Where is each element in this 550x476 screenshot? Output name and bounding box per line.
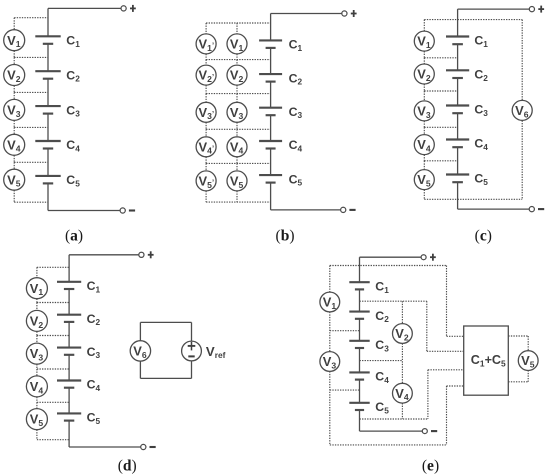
wire V6-Vref loop top (d): [140, 321, 191, 323]
sense wire lead above V5 (c): [423, 161, 425, 170]
svg-text:C4: C4: [87, 378, 101, 393]
sense wire lead below V3p (b): [205, 122, 207, 129]
voltmeter V4prime (b): [196, 137, 216, 157]
sense wire lead above V3 (c): [423, 91, 425, 101]
sense wire lead below V5p (b): [205, 191, 207, 202]
wire (d) negative lead: [69, 446, 141, 448]
cell C3 (c): [446, 106, 469, 114]
sense wire left below V3 (e): [329, 371, 331, 445]
voltmeter V4 (d): [26, 376, 47, 397]
cell C2 (d): [57, 315, 81, 322]
svg-text:C1: C1: [289, 38, 303, 53]
sense wire lead below V4 (b): [236, 157, 238, 164]
svg-text:C4: C4: [66, 138, 80, 153]
sense wire V2-V4 (e): [401, 343, 403, 383]
wire (d) positive lead: [69, 254, 139, 256]
sense wire lead above V2 (d): [36, 303, 38, 311]
sense wire lead below V2 (b): [236, 85, 238, 94]
cell C1 (c): [446, 37, 469, 45]
sense wire V4 lower lead (e): [401, 403, 403, 419]
wire (b) segment C3-C4: [270, 115, 272, 141]
wire (c) positive lead: [458, 8, 530, 10]
sense wire node 2 (d): [37, 335, 69, 337]
wire (b) positive lead: [271, 13, 342, 15]
cell C5 (c): [446, 175, 469, 183]
svg-text:C2: C2: [87, 312, 101, 327]
voltmeter V1 (c): [414, 31, 434, 51]
sense wire outer right rise to block (e): [446, 386, 448, 445]
voltmeter V2 (d): [26, 310, 47, 331]
cell C2 (c): [446, 70, 469, 78]
wire (a) top node segment: [47, 8, 49, 36]
wire (b) segment C1-C2: [270, 48, 272, 74]
wire (c) segment C3-C4: [457, 113, 459, 139]
svg-text:C4: C4: [474, 137, 488, 152]
sense wire lead above V2 (c): [423, 58, 425, 64]
wire V6-Vref loop right lower (d): [191, 361, 193, 379]
sense wire lead above V4 (a): [13, 127, 15, 134]
terminal + (c): [529, 6, 544, 13]
voltmeter V3 (e): [320, 352, 340, 372]
svg-text:(b): (b): [276, 228, 295, 245]
svg-text:(c): (c): [475, 228, 492, 245]
sense wire lead above V1 (d): [36, 267, 38, 277]
voltmeter V3 (c): [414, 101, 434, 121]
sense wire node 3 (b): [206, 128, 271, 130]
wire (a) segment C4-C5: [47, 149, 49, 176]
voltmeter V5 (e): [518, 351, 538, 371]
sense wire lead below V4 (a): [13, 155, 15, 162]
terminal - (b): [341, 207, 356, 212]
wire (d) bottom segment: [68, 421, 70, 447]
wire (e) top node segment: [359, 257, 361, 282]
svg-text:C1+C5: C1+C5: [471, 353, 506, 368]
sense wire lead above V4 (c): [423, 127, 425, 134]
wire (d) segment C4-C5: [68, 388, 70, 414]
wire (c) bottom segment: [457, 182, 459, 209]
voltmeter V4 (c): [414, 135, 434, 155]
voltmeter V4 (e): [393, 383, 413, 403]
svg-text:C2: C2: [66, 68, 80, 83]
wire V6-Vref loop left (d): [139, 322, 141, 341]
sense wire lead above V2 (a): [13, 57, 15, 64]
sense wire node 4 (b): [206, 162, 271, 164]
wire (a) segment C3-C4: [47, 114, 49, 141]
voltmeter V3 (b): [227, 102, 247, 122]
cell C4 (b): [259, 141, 282, 149]
svg-text:C4: C4: [289, 138, 303, 153]
cell C4 (a): [35, 141, 60, 149]
sense wire lead above V4 (b): [236, 129, 238, 137]
cell C2 (e): [349, 312, 369, 319]
sense wire top row drop to block (e): [446, 266, 448, 337]
sense wire left V1-V3 (e): [329, 312, 331, 352]
terminal + (b): [342, 10, 357, 17]
sense wire lead below V5 (c): [423, 190, 425, 200]
svg-text:C5: C5: [87, 411, 101, 426]
sense wire lead below V1 (a): [13, 51, 15, 58]
sense wire outer bottom row (e): [330, 444, 447, 446]
sense wire lead below V1p (b): [205, 54, 207, 60]
block C1+C5 estimator (e): [464, 326, 509, 395]
sense wire lead above V4 (d): [36, 369, 38, 376]
sense wire lead above V4p (b): [205, 129, 207, 137]
svg-text:C3: C3: [375, 338, 389, 353]
wire (c) top node segment: [457, 9, 459, 36]
cell C2 (a): [35, 71, 60, 79]
voltmeter V1prime (b): [196, 34, 216, 54]
sense wire lead below V3 (d): [36, 364, 38, 369]
diagram (c): battery stack with cell voltmeters plus total-voltage voltmeter V6: [0, 0, 1, 1]
sense wire lead below V1 (d): [36, 299, 38, 303]
sense wire lead above V1p (b): [205, 23, 207, 34]
sense wire node 3 (a): [14, 126, 48, 128]
sense wire node 1 (d): [37, 302, 69, 304]
wire (d) segment C1-C2: [68, 289, 70, 315]
voltmeter V3 (d): [26, 343, 47, 364]
sense wire lead below V4p (b): [205, 157, 207, 164]
terminal - (d): [141, 444, 156, 449]
wire V6-Vref loop right (d): [191, 322, 193, 341]
wire (e) segment C4-C5: [359, 380, 361, 403]
sense wire lead below V3 (c): [423, 121, 425, 127]
wire (b) negative lead: [271, 209, 341, 211]
sense wire lead below V2p (b): [205, 85, 207, 94]
voltmeter V4 (a): [4, 134, 25, 155]
wire (a) segment C1-C2: [47, 44, 49, 71]
sense wire lead above V1 (a): [13, 18, 15, 30]
sense wire node 4 (d): [37, 401, 69, 403]
wire V6-Vref loop left lower (d): [139, 361, 141, 379]
diagram (b): battery stack with redundant voltmeters V1p-V5p and V1-V5: [0, 0, 1, 1]
svg-text:C5: C5: [474, 172, 488, 187]
wire (c) segment C4-C5: [457, 147, 459, 174]
wire (e) segment C2-C3: [359, 319, 361, 341]
wire (a) bottom segment: [47, 183, 49, 210]
svg-text:C3: C3: [87, 345, 101, 360]
sense wire node 1 (a): [14, 56, 48, 58]
sense wire node 3 (c): [424, 126, 457, 128]
sense wire node 1 (b): [206, 59, 271, 61]
wire (d) segment C3-C4: [68, 355, 70, 381]
svg-text:C2: C2: [289, 71, 303, 86]
wire (a) negative lead: [48, 210, 120, 212]
sense wire node 5 (d): [37, 439, 69, 441]
svg-text:C1: C1: [87, 279, 101, 294]
svg-text:C5: C5: [66, 173, 80, 188]
cell C5 (d): [57, 413, 81, 420]
wire (e) segment C3-C4: [359, 348, 361, 372]
sense wire node 1 (c): [424, 57, 457, 59]
sense wire lead above V5p (b): [205, 163, 207, 171]
sense wire bottom span to V6 (c): [458, 198, 523, 200]
svg-text:C5: C5: [289, 172, 303, 187]
sense wire lead above V1 (c): [423, 20, 425, 32]
sense wire lead above V3 (a): [13, 92, 15, 99]
sense wire lead below V3 (b): [236, 122, 238, 129]
terminal + (e): [421, 254, 436, 261]
cell C4 (c): [446, 140, 469, 148]
sense wire node 5 (c): [424, 198, 457, 200]
sense wire left lead above V1 (e): [329, 266, 331, 293]
wire (e) segment C1-C2: [359, 289, 361, 311]
terminal + (d): [139, 251, 154, 258]
wire (c) segment C2-C3: [457, 78, 459, 106]
terminal - (c): [529, 207, 544, 212]
cell C5 (b): [259, 175, 282, 183]
sense wire V2 upper lead (e): [401, 301, 403, 323]
sense wire block to V5 top (e): [508, 335, 528, 337]
cell C2 (b): [259, 74, 282, 82]
sense wire lead above V5 (b): [236, 163, 238, 171]
voltmeter V6 (d): [130, 341, 150, 361]
sense wire lead below V2 (d): [36, 331, 38, 335]
svg-text:C4: C4: [375, 370, 389, 385]
sense wire node 3 (d): [37, 368, 69, 370]
sense tap node C4-C5 (e): [330, 389, 360, 391]
diagram (d): battery stack with voltmeters and reference source loop: [0, 0, 1, 1]
sense wire node 2 (a): [14, 91, 48, 93]
svg-text:C3: C3: [474, 103, 488, 118]
sense wire lead below V4 (c): [423, 155, 425, 161]
voltmeter V5prime (b): [196, 171, 216, 191]
voltmeter V5 (a): [4, 169, 25, 190]
sense wire node 0 (c): [424, 19, 457, 21]
sense wire node 0 (b): [206, 22, 271, 24]
cell C1 (b): [259, 40, 282, 48]
wire (e) positive lead: [360, 256, 422, 258]
wire (b) segment C4-C5: [270, 149, 272, 176]
wire (d) segment C2-C3: [68, 322, 70, 348]
voltmeter V1 (e): [320, 292, 340, 312]
svg-text:(a): (a): [65, 228, 83, 245]
terminal - (a): [120, 208, 135, 213]
sense wire lead above V1 (b): [236, 23, 238, 34]
wire (a) segment C2-C3: [47, 79, 49, 106]
wire (c) segment C1-C2: [457, 44, 459, 70]
sense wire lead below V5 (a): [13, 190, 15, 202]
svg-text:C1: C1: [375, 280, 389, 295]
svg-text:C2: C2: [375, 309, 389, 324]
voltmeter V3 (a): [4, 99, 25, 120]
voltmeter V1 (b): [227, 34, 247, 54]
svg-text:(e): (e): [422, 457, 439, 474]
cell C1 (a): [35, 36, 60, 44]
svg-text:C2: C2: [474, 68, 488, 83]
sense wire lead below V2 (a): [13, 86, 15, 93]
sense wire node 5 (b): [206, 201, 271, 203]
wire V6-Vref loop bottom (d): [140, 377, 191, 379]
sense wire lead above V2 (b): [236, 60, 238, 66]
voltmeter V6 (c): [512, 100, 532, 120]
sense wire lead above V3 (d): [36, 336, 38, 344]
sense wire lead below V1 (b): [236, 54, 238, 60]
sense wire bottom node row (e): [360, 418, 428, 420]
voltmeter V1 (a): [4, 30, 25, 51]
voltmeter V5 (d): [26, 409, 47, 430]
terminal - (e): [422, 429, 437, 434]
cell C3 (d): [57, 348, 81, 355]
wire (c) negative lead: [458, 208, 530, 210]
voltmeter V2 (b): [227, 65, 247, 85]
sense wire block to V5 bottom (e): [508, 381, 528, 383]
wire (b) top node segment: [270, 14, 272, 41]
voltmeter V2 (e): [393, 324, 413, 344]
voltmeter V2 (c): [414, 64, 434, 84]
voltmeter V3prime (b): [196, 102, 216, 122]
sense wire lead below V1 (c): [423, 51, 425, 58]
sense wire lead above V5 (d): [36, 402, 38, 408]
sense wire top span to V6 (c): [458, 19, 523, 21]
wire (b) bottom segment: [270, 183, 272, 210]
sense wire node 0 (a): [14, 17, 48, 19]
sense wire bottom node rise to block (e): [427, 370, 429, 419]
sense wire node 2 (c): [424, 90, 457, 92]
wire (b) segment C2-C3: [270, 82, 272, 108]
cell C1 (e): [349, 282, 369, 289]
sense wire node 0 (d): [37, 266, 69, 268]
voltmeter V4 (b): [227, 137, 247, 157]
cell C5 (e): [349, 403, 369, 410]
sense wire lead below V5 (d): [36, 430, 38, 440]
sense wire lead above V2p (b): [205, 60, 207, 66]
svg-text:C3: C3: [289, 105, 303, 120]
svg-text:C5: C5: [375, 400, 389, 415]
wire (e) negative lead: [360, 430, 423, 432]
sense wire node 4 (c): [424, 160, 457, 162]
sense wire V6 upper lead (c): [521, 20, 523, 101]
sense wire lead above V3 (b): [236, 94, 238, 103]
wire (e) bottom segment: [359, 410, 361, 431]
sense wire node 4 (a): [14, 161, 48, 163]
voltmeter V1 (d): [26, 278, 47, 299]
svg-text:C1: C1: [474, 34, 488, 49]
voltmeter V2prime (b): [196, 65, 216, 85]
sense wire node C3-C4 row (e): [360, 360, 403, 362]
svg-text:C3: C3: [66, 103, 80, 118]
sense wire top row (e): [330, 265, 447, 267]
diagram (a): 5-cell battery stack with individual cell voltmeters V1-V5: [0, 0, 1, 1]
sense wire lead below V3 (a): [13, 120, 15, 127]
cell C4 (d): [57, 381, 81, 388]
sense wire node 5 (a): [14, 201, 48, 203]
wire (a) positive lead: [48, 7, 121, 9]
sense wire lead below V2 (c): [423, 84, 425, 91]
sense wire lead below V4 (d): [36, 397, 38, 402]
cell C3 (b): [259, 108, 282, 116]
cell C3 (a): [35, 106, 60, 114]
voltmeter V5 (c): [414, 170, 434, 190]
source Vref (d): [182, 341, 202, 361]
sense wire lead above V3p (b): [205, 94, 207, 103]
sense wire lead below V5 (b): [236, 191, 238, 202]
cell C3 (e): [349, 341, 369, 348]
svg-text:Vref: Vref: [206, 344, 226, 360]
terminal + (a): [121, 5, 136, 12]
cell C4 (e): [349, 372, 369, 379]
sense wire C1-C2 node drop to block (e): [426, 301, 428, 351]
cell C1 (d): [57, 282, 81, 289]
voltmeter V5 (b): [227, 171, 247, 191]
svg-text:(d): (d): [118, 457, 137, 474]
wire (d) top node segment: [68, 255, 70, 282]
voltmeter V2 (a): [4, 65, 25, 86]
sense wire V6 lower lead (c): [521, 121, 523, 200]
diagram (e): battery stack with pairwise voltmeters and C1+C5 estimator block: [0, 0, 1, 1]
sense wire node 2 (b): [206, 93, 271, 95]
svg-text:C1: C1: [66, 34, 80, 49]
cell C5 (a): [35, 176, 60, 184]
sense wire node C1-C2 row (e): [360, 300, 427, 302]
sense tap node C2-C3 (e): [330, 330, 360, 332]
sense wire lead above V5 (a): [13, 162, 15, 169]
